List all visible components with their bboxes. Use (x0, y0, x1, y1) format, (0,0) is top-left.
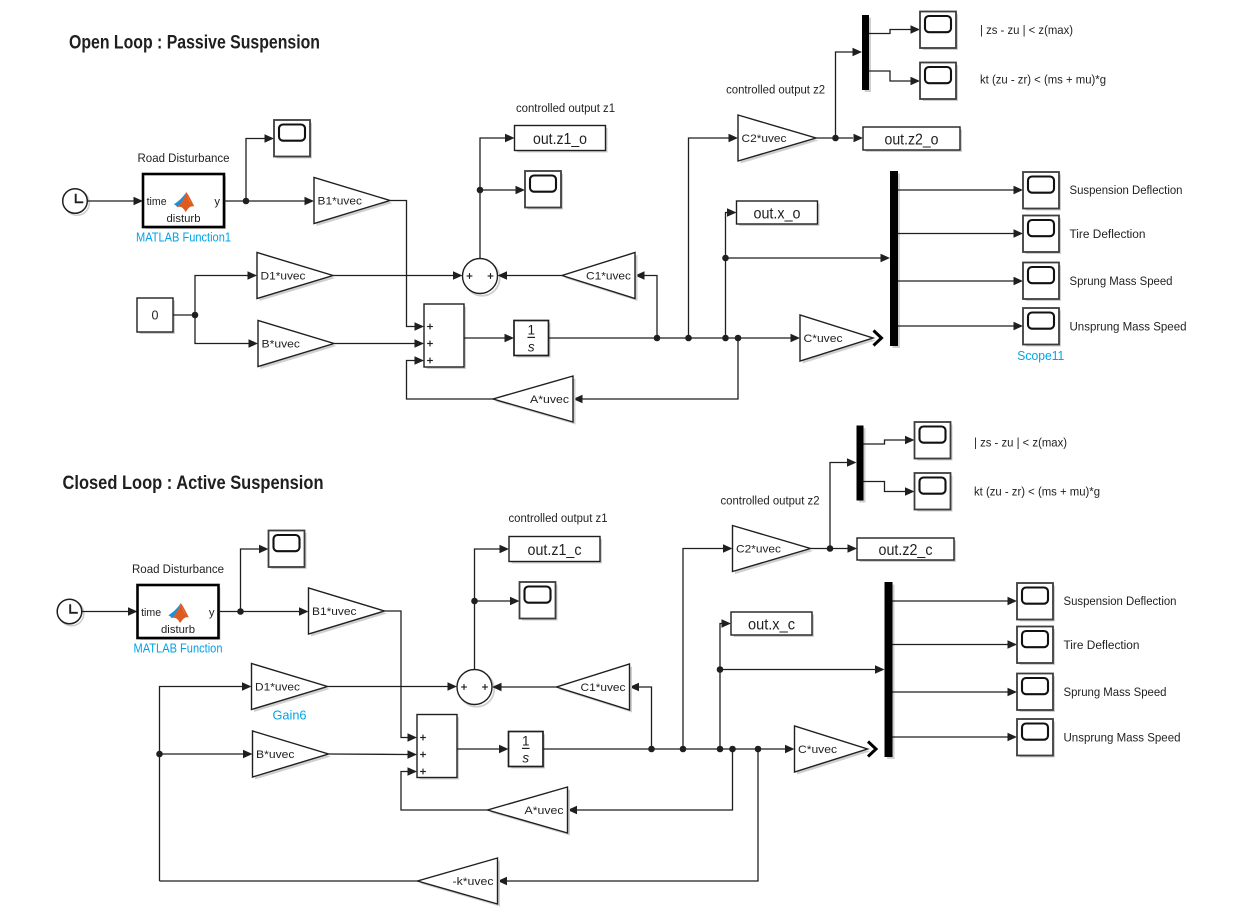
wire branch up to Demux1 (bottom) (830, 458, 857, 548)
annotation Suspension Deflection (bottom) (1064, 594, 1177, 608)
svg-text:out.z2_o: out.z2_o (885, 131, 939, 148)
gain B1*uvec (314, 178, 393, 227)
sum junction circle Add (463, 259, 500, 296)
sum junction circle Add (bottom) (457, 670, 494, 707)
svg-text:D1*uvec: D1*uvec (261, 271, 306, 283)
wire sum circle output to out.z1_c and scope (bottom) (471, 545, 519, 670)
svg-text:MATLAB Function1: MATLAB Function1 (136, 231, 231, 245)
wire feedback to C2*uvec (689, 134, 739, 338)
svg-text:disturb: disturb (161, 624, 195, 636)
svg-text:out.z1_c: out.z1_c (528, 542, 582, 559)
svg-text:time: time (147, 196, 167, 208)
outport out.z2_o (863, 127, 961, 151)
gain name Gain6 (273, 709, 307, 723)
wire demux out Tire Deflection (bottom) (893, 640, 1018, 649)
scope name Scope11 (1017, 349, 1064, 363)
wire feedback to A*uvec (573, 338, 738, 403)
wire B1*uvec to sum input 1 (bottom) (385, 611, 418, 742)
wire Demux1 out 1 to scope (869, 25, 920, 34)
gain A*uvec (bottom) (488, 787, 571, 836)
sum block Add1 (rectangle, 3 inputs) (424, 304, 465, 368)
wire state vector to out.x_c (717, 619, 731, 749)
gain C2*uvec (bottom) (733, 526, 814, 575)
annotation Unsprung Mass Speed (bottom) (1064, 731, 1181, 745)
gain C1*uvec (562, 253, 638, 302)
wire feedback to A*uvec (bottom) (568, 749, 733, 814)
annotation Tire Deflection (bottom) (1064, 638, 1140, 652)
wire demux out Tire Deflection (top) (898, 229, 1023, 238)
gain C1*uvec (bottom) (557, 664, 633, 713)
svg-text:s: s (528, 340, 535, 355)
annotation title: Open Loop : Passive Suspension (69, 33, 320, 54)
svg-text:controlled output z2: controlled output z2 (726, 83, 825, 97)
outport out.x_c (731, 612, 813, 636)
svg-text:Suspension Deflection: Suspension Deflection (1070, 183, 1183, 197)
svg-text:| zs - zu | < z(max): | zs - zu | < z(max) (974, 436, 1067, 450)
clock Clock (bottom) (57, 599, 84, 626)
annotation kt (zu - zr) &lt; (ms + mu)*g (bottom) (974, 485, 1100, 499)
wire branch to D1*uvec (195, 271, 257, 315)
svg-text:0: 0 (152, 309, 159, 323)
wire B*uvec to sum input 2 (334, 339, 424, 348)
annotation controlled output z1 (bottom) (509, 511, 608, 525)
svg-text:Unsprung Mass Speed: Unsprung Mass Speed (1070, 320, 1187, 334)
wire C2*uvec output to out.z2_o (816, 134, 863, 143)
svg-text:s: s (522, 751, 529, 766)
outport out.z1_o (515, 126, 607, 152)
annotation kt (zu - zr) &lt; (ms + mu)*g (top) (980, 73, 1106, 87)
wire demux out Sprung Mass Speed (bottom) (893, 688, 1018, 697)
svg-text:| zs - zu | < z(max): | zs - zu | < z(max) (980, 23, 1073, 37)
wire feedback to C1*uvec (635, 271, 657, 338)
svg-text:A*uvec: A*uvec (530, 394, 569, 406)
wire demux out Suspension Deflection (bottom) (893, 597, 1018, 606)
scope constraint 2 (top) (920, 63, 957, 100)
MATLAB function block Road Disturbance (bottom) (132, 562, 224, 656)
annotation controlled output z1 (top) (516, 101, 615, 115)
wire sum circle output to out.z1_o and Scope1 (477, 134, 525, 259)
scope Scope1 (bottom) (520, 582, 557, 619)
wire demux out Suspension Deflection (top) (898, 186, 1023, 195)
svg-text:1: 1 (527, 323, 535, 338)
wire -k*uvec feedback rising to D1 and B (bottom) (156, 682, 252, 881)
svg-text:out.z2_c: out.z2_c (879, 542, 933, 559)
scope constraint 2 (bottom) (915, 473, 952, 510)
svg-text:Unsprung Mass Speed: Unsprung Mass Speed (1064, 731, 1181, 745)
wire feedback to C1*uvec (bottom) (630, 683, 652, 749)
wire integrator output bus (549, 334, 801, 343)
scope Sprung Mass Speed (top) (1023, 263, 1060, 300)
wire state vector to Demux (top) (726, 254, 891, 263)
svg-text:A*uvec: A*uvec (525, 805, 564, 817)
svg-text:Road Disturbance: Road Disturbance (132, 562, 224, 576)
scope Unsprung Mass Speed (bottom) (1017, 719, 1054, 756)
annotation Suspension Deflection (top) (1070, 183, 1183, 197)
svg-text:B1*uvec: B1*uvec (318, 196, 363, 208)
gain C*uvec (bottom) (795, 726, 871, 775)
integrator 1/s (bottom) (509, 732, 544, 768)
scope Sprung Mass Speed (bottom) (1017, 674, 1054, 711)
svg-text:controlled output z1: controlled output z1 (509, 511, 608, 525)
svg-text:kt (zu - zr) < (ms + mu)*g: kt (zu - zr) < (ms + mu)*g (980, 73, 1106, 87)
wire A*uvec to sum input 3 (407, 356, 494, 399)
scope Tire Deflection (bottom) (1017, 627, 1054, 664)
annotation | zs - zu | &lt; z(max) (bottom) (974, 436, 1067, 450)
svg-text:Tire Deflection: Tire Deflection (1064, 638, 1140, 652)
outport out.z2_c (857, 538, 955, 561)
annotation controlled output z2 (bottom) (721, 494, 820, 508)
svg-text:C*uvec: C*uvec (804, 333, 843, 345)
wire branch up to Demux1 (836, 48, 863, 138)
gain D1*uvec (257, 253, 336, 302)
wire A*uvec to sum input 3 (bottom) (401, 767, 488, 810)
wire Demux1 out 2 to scope (869, 71, 920, 85)
svg-text:Gain6: Gain6 (273, 709, 307, 723)
wire B1*uvec to sum input 1 (390, 201, 424, 331)
annotation Unsprung Mass Speed (top) (1070, 320, 1187, 334)
annotation controlled output z2 (top) (726, 83, 825, 97)
wire D1*uvec to sum circle (bottom) (328, 682, 458, 691)
wire branch up to scope (bottom) (241, 545, 269, 612)
wire state vector to out.x_o (722, 208, 736, 338)
svg-text:B*uvec: B*uvec (256, 749, 295, 761)
gain C2*uvec (738, 115, 819, 164)
svg-text:Suspension Deflection: Suspension Deflection (1064, 594, 1177, 608)
gain B1*uvec (bottom) (309, 588, 388, 637)
svg-text:-k*uvec: -k*uvec (453, 876, 494, 888)
scope Scope2 (274, 120, 311, 157)
wire C2*uvec to out.z2_c (811, 544, 858, 553)
scope constraint 1 (bottom) (915, 422, 952, 459)
svg-text:time: time (141, 607, 161, 619)
svg-text:MATLAB Function: MATLAB Function (134, 642, 223, 656)
svg-text:out.x_c: out.x_c (748, 616, 795, 633)
svg-text:y: y (214, 196, 220, 208)
svg-text:C*uvec: C*uvec (798, 744, 837, 756)
scope Suspension Deflection (top) (1023, 172, 1060, 209)
annotation Tire Deflection (top) (1070, 227, 1146, 241)
svg-text:B1*uvec: B1*uvec (312, 606, 357, 618)
svg-text:controlled output z1: controlled output z1 (516, 101, 615, 115)
MATLAB function block Road Disturbance (disturb) (136, 151, 231, 245)
svg-text:C2*uvec: C2*uvec (742, 133, 787, 145)
svg-text:1: 1 (522, 734, 530, 749)
svg-text:C1*uvec: C1*uvec (586, 271, 631, 283)
annotation Sprung Mass Speed (top) (1070, 274, 1173, 288)
wire Demux1 out 1 to scope (bottom) (864, 436, 915, 445)
wire demux out Unsprung Mass Speed (top) (898, 322, 1023, 331)
demux Demux1 (top) (862, 15, 870, 91)
wire C1*uvec to sum circle right (498, 271, 563, 280)
sum block Add1 (bottom) (417, 715, 458, 779)
wire feedback to C2*uvec (bottom) (683, 544, 733, 749)
svg-text:out.x_o: out.x_o (754, 205, 801, 222)
annotation | zs - zu | &lt; z(max) (top) (980, 23, 1073, 37)
wire D1*uvec to sum circle (333, 271, 463, 280)
wire demux out Sprung Mass Speed (top) (898, 277, 1023, 286)
scope constraint 1 (top) (920, 12, 957, 49)
wire Demux1 out 2 to scope (bottom) (864, 482, 915, 496)
wire Clock to Road Disturbance (bottom) (82, 607, 138, 616)
clock Clock1 (63, 189, 90, 216)
gain A*uvec (493, 376, 576, 425)
svg-text:out.z1_o: out.z1_o (533, 131, 587, 148)
wire sum Add1 to integrator (464, 334, 514, 343)
wire y output of Road Disturbance with branch node (224, 197, 314, 206)
wire state vector to Demux (bottom) (720, 665, 885, 674)
svg-text:C2*uvec: C2*uvec (736, 544, 781, 556)
svg-text:B*uvec: B*uvec (262, 339, 301, 351)
svg-text:Tire Deflection: Tire Deflection (1070, 227, 1146, 241)
scope Unsprung Mass Speed (top) (1023, 308, 1060, 345)
outport out.x_o (737, 201, 819, 225)
wire branch up to Scope2 (246, 134, 274, 201)
wire y output (bottom) with branch node (219, 607, 309, 616)
demux Demux (bottom, tall) (885, 582, 894, 758)
wide signal chevron (top) (874, 331, 882, 346)
annotation Sprung Mass Speed (bottom) (1064, 685, 1167, 699)
integrator 1/s (514, 321, 549, 357)
wire demux out Unsprung Mass Speed (bottom) (893, 733, 1018, 742)
svg-text:kt (zu - zr) < (ms + mu)*g: kt (zu - zr) < (ms + mu)*g (974, 485, 1100, 499)
gain B*uvec (bottom) (253, 731, 332, 780)
scope Tire Deflection (top) (1023, 216, 1060, 253)
constant block 0 (137, 298, 174, 333)
wire B*uvec to sum input 2 (bottom) (329, 750, 418, 759)
scope Scope2 (bottom) (269, 531, 306, 568)
svg-text:controlled output z2: controlled output z2 (721, 494, 820, 508)
scope Scope1 (525, 171, 562, 208)
svg-text:Road Disturbance: Road Disturbance (138, 151, 230, 165)
demux Demux (top, tall) (890, 171, 899, 347)
svg-text:C1*uvec: C1*uvec (581, 682, 626, 694)
svg-text:Closed Loop : Active Suspensio: Closed Loop : Active Suspension (63, 473, 324, 494)
svg-text:Scope11: Scope11 (1017, 349, 1064, 363)
wire -k*uvec output to left riser (160, 880, 418, 882)
svg-text:D1*uvec: D1*uvec (255, 682, 300, 694)
svg-text:y: y (209, 607, 215, 619)
gain B*uvec (258, 321, 337, 370)
wire C1*uvec to sum circle (bottom) (492, 683, 557, 692)
gain D1*uvec (bottom) (252, 664, 331, 713)
wire sum to integrator (bottom) (457, 745, 509, 754)
svg-text:disturb: disturb (167, 213, 201, 225)
demux Demux1 (bottom) (857, 426, 865, 502)
wire Clock1 to Road Disturbance (88, 197, 144, 206)
gain C*uvec (top) (800, 315, 876, 364)
annotation title: Closed Loop : Active Suspension (63, 473, 324, 494)
svg-text:Sprung Mass Speed: Sprung Mass Speed (1064, 685, 1167, 699)
wire integrator output bus (bottom) (543, 745, 795, 754)
gain -k*uvec (418, 858, 501, 907)
wire branch to B*uvec (195, 315, 258, 348)
wide signal chevron (bottom) (868, 742, 876, 757)
outport out.z1_c (509, 537, 601, 563)
scope Suspension Deflection (bottom) (1017, 583, 1054, 620)
wire feedback to -k*uvec (498, 749, 759, 885)
wire constant 0 to branch node (173, 312, 198, 319)
svg-text:Open Loop : Passive Suspension: Open Loop : Passive Suspension (69, 33, 320, 54)
svg-text:Sprung Mass Speed: Sprung Mass Speed (1070, 274, 1173, 288)
